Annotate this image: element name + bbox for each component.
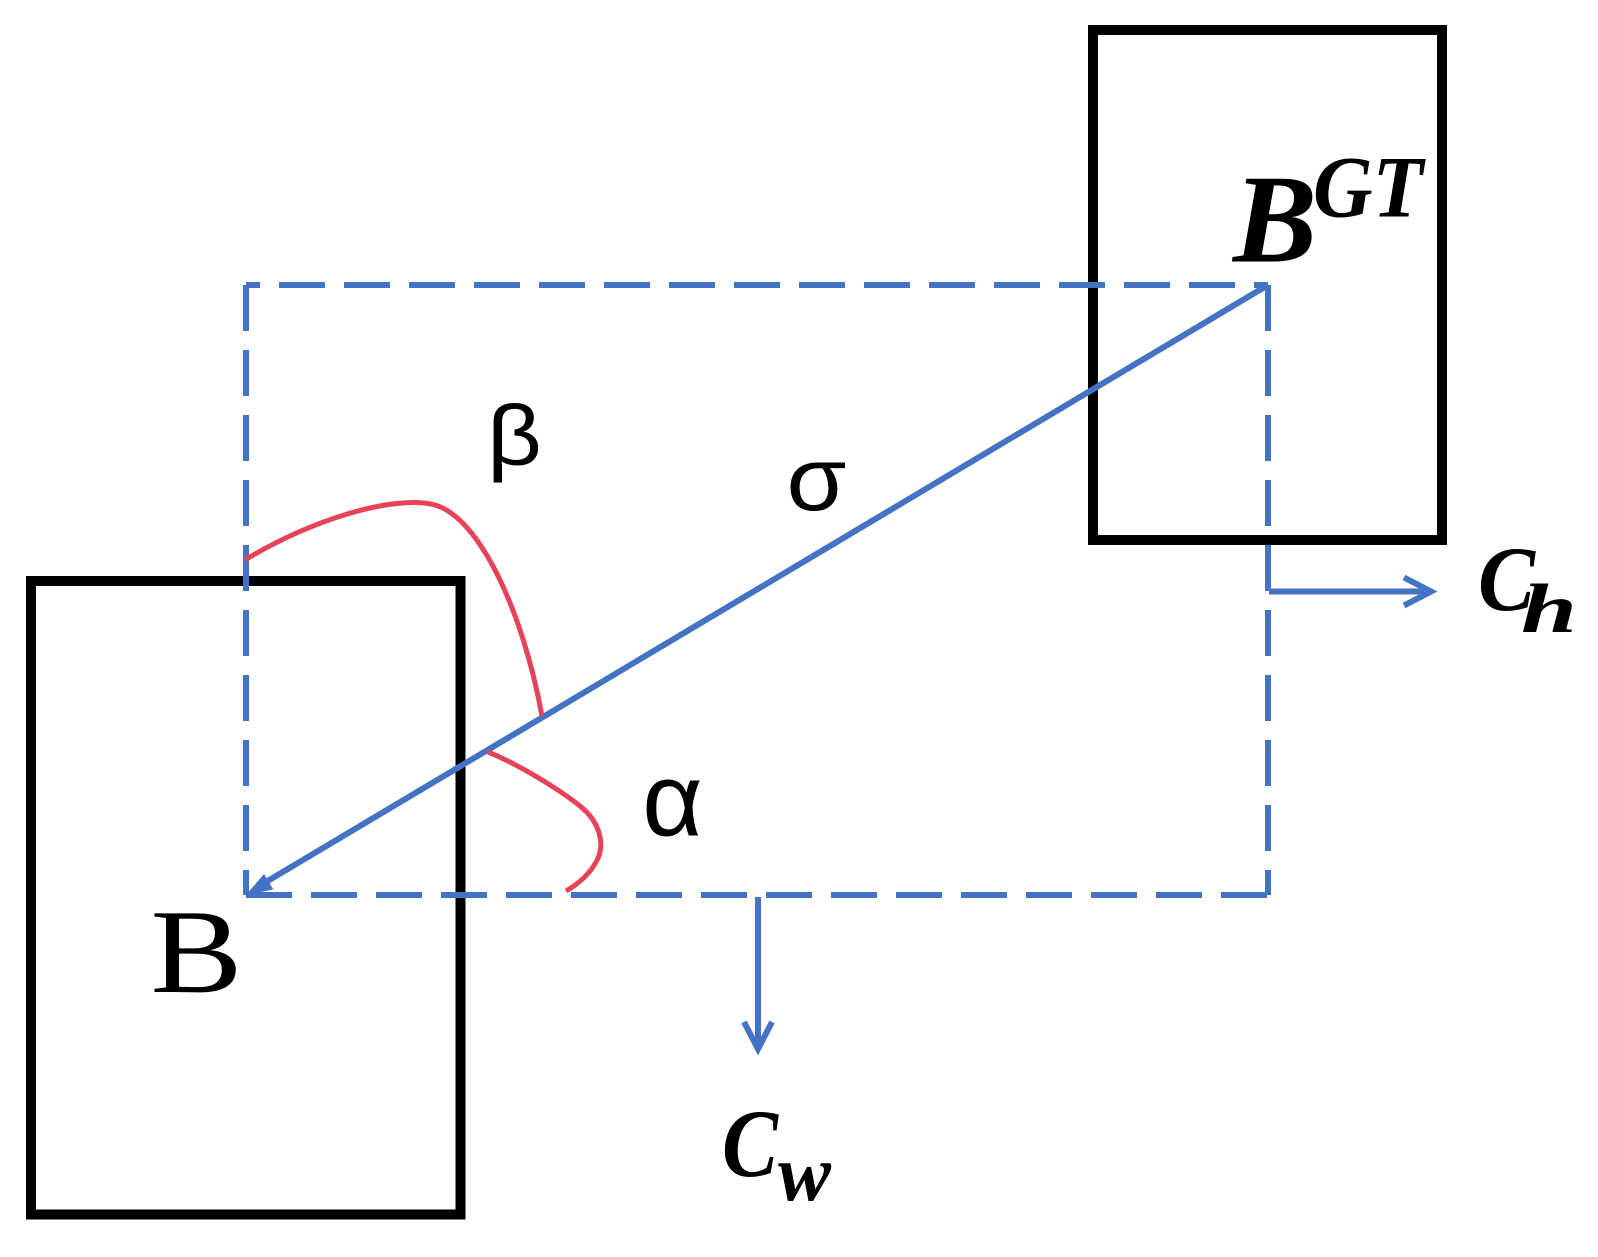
svg-text:B: B [1231,151,1317,290]
svg-text:GT: GT [1313,140,1426,237]
svg-text:β: β [487,389,542,484]
svg-text:w: w [778,1130,832,1218]
svg-text:B: B [151,885,243,1018]
svg-text:C: C [722,1090,779,1197]
svg-text:σ: σ [787,430,847,530]
svg-text:h: h [1521,571,1577,648]
svg-text:α: α [642,743,703,859]
